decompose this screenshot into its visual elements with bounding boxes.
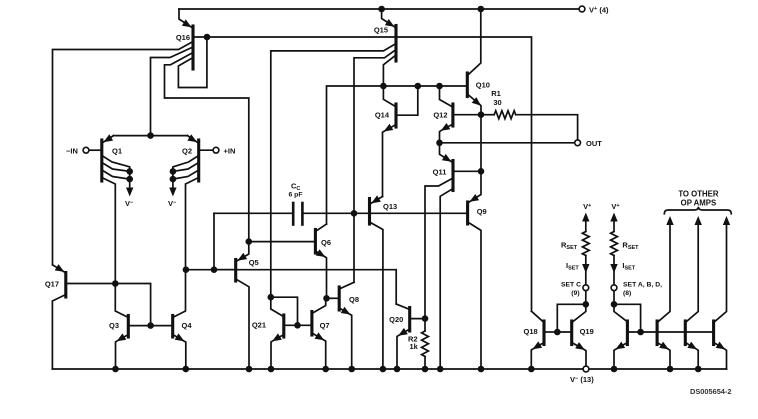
transistor Q13 (PNP)	[370, 195, 383, 366]
junction bus / Q14 base	[415, 83, 422, 90]
wire master collector tie to common bases	[614, 304, 641, 332]
wire Q16 collector 4 diode tie to base	[178, 37, 207, 88]
svg-text:(8): (8)	[623, 290, 631, 297]
svg-text:OP AMPS: OP AMPS	[681, 199, 717, 208]
svg-text:SET C: SET C	[561, 282, 581, 289]
transistor Q9 (PNP)	[468, 171, 481, 366]
transistor slave3 (NPN, to other op amps)	[714, 216, 731, 369]
svg-text:6 pF: 6 pF	[289, 191, 303, 198]
junction Q2 collector stub a	[170, 168, 177, 175]
transistor slave1 (NPN, to other op amps)	[657, 216, 674, 369]
svg-text:30: 30	[493, 98, 501, 107]
transistor Q8 (NPN)	[327, 282, 355, 366]
junction rail / Q20 emitter	[394, 366, 401, 373]
transistor Q4 (NPN)	[151, 272, 186, 367]
transistor slave2 (NPN, to other op amps)	[685, 216, 702, 369]
svg-text:Q4: Q4	[182, 321, 193, 330]
transistor Q14 (NPN diode-connected)	[383, 86, 418, 197]
wire Iset C	[585, 256, 587, 285]
wire Q16 collector 2 to input tail	[151, 47, 194, 133]
junction rail / Q18 emitter	[528, 366, 535, 373]
svg-text:1k: 1k	[410, 342, 419, 351]
transistor Q18 (NPN)	[531, 311, 557, 366]
wire SET C branch	[585, 291, 587, 305]
junction rail / Q7 emitter	[322, 366, 329, 373]
wire Q16 collector 3 to Q5/Q6 node	[165, 53, 249, 240]
svg-text:Q12: Q12	[433, 111, 447, 120]
junction Q6 emitter / Q7 collector / Q8 base	[323, 295, 330, 302]
svg-text:(9): (9)	[571, 290, 579, 297]
svg-text:−IN: −IN	[66, 146, 78, 155]
junction Q15 C1 / Q21 collector	[268, 294, 275, 301]
svg-text:Q21: Q21	[252, 321, 266, 330]
svg-text:Q17: Q17	[45, 279, 59, 288]
svg-text:Q2: Q2	[182, 147, 192, 156]
wire compensation node line to Q9 base	[214, 212, 293, 214]
svg-text:Q16: Q16	[176, 33, 190, 42]
wire SET A,B,D branch	[613, 291, 615, 305]
wire to V+ (ABD)	[613, 219, 615, 232]
wire Q16 collector 1 to Q17 emitter	[53, 42, 194, 265]
junction rail / R2	[422, 366, 429, 373]
wire Iset ABD	[613, 256, 615, 285]
svg-text:Q13: Q13	[383, 202, 397, 211]
wire OUT line	[440, 142, 575, 144]
svg-text:Q19: Q19	[580, 327, 594, 336]
wire second-stage bus / Q6 collector	[327, 86, 466, 224]
transistor Q12 (NPN)	[440, 86, 482, 140]
wire Q2/Q4 collector to bias line	[186, 270, 396, 304]
terminal V- (13)	[583, 366, 589, 372]
transistor Q19 (NPN)	[557, 307, 586, 366]
junction Q17 base / Q1-Q3 collectors	[112, 280, 119, 287]
wire Q15 collector 2 to compensation node	[354, 50, 396, 283]
junction bus / Q12 collector	[436, 83, 443, 90]
junction rail / Q5 collector	[246, 366, 253, 373]
resistor RSET (ABD)	[611, 232, 618, 256]
transistor Q1 (input PNP, multi-collector)	[89, 134, 133, 281]
terminal SET A,B,D (8)	[611, 285, 617, 291]
junction Q16 C3 / Q5 emitter / Q6 base	[246, 238, 253, 245]
junction Q21 base tie	[294, 322, 301, 329]
transistor right mirror master (NPN)	[614, 304, 627, 366]
transistor Q17 (PNP)	[52, 264, 150, 369]
junction tail	[147, 132, 154, 139]
junction rail / Q21 emitter	[268, 366, 275, 373]
junction Q11 base / Q9 emitter line	[478, 168, 485, 175]
junction cap lead / bias line	[211, 266, 218, 273]
wire Q15 collector 3 to second-stage bus	[383, 55, 396, 84]
junction SET A,B,D node	[611, 301, 618, 308]
junction Q15 emitter / V+ rail	[378, 6, 385, 13]
svg-text:Q7: Q7	[320, 321, 330, 330]
junction rail / Q11 C2	[437, 366, 444, 373]
transistor Q11 (PNP dual collector)	[425, 143, 479, 367]
junction Q20 base / Q11 C1 / R2	[422, 315, 429, 322]
transistor Q7 (NPN)	[312, 301, 326, 367]
terminal SET C (9)	[583, 285, 589, 291]
junction bus / Q14 collector	[380, 83, 387, 90]
junction rail / slave2 emitter	[695, 366, 702, 373]
svg-text:Q18: Q18	[524, 327, 538, 336]
wire Q16 base to bias line	[193, 37, 532, 311]
capacitor CC 6 pF	[293, 203, 302, 225]
transistor Q3 (NPN)	[115, 285, 150, 367]
svg-text:V− (13): V− (13)	[570, 375, 594, 384]
svg-text:+IN: +IN	[224, 146, 236, 155]
wire R1 node down to Q11 base	[480, 115, 482, 172]
junction Q2 collector / bias line	[183, 266, 190, 273]
svg-text:OUT: OUT	[586, 139, 602, 148]
junction rail / Q9 collector	[478, 366, 485, 373]
svg-text:Q9: Q9	[477, 207, 487, 216]
junction Q18/Q19 bases	[554, 329, 561, 336]
transistor Q5 (PNP)	[214, 242, 249, 367]
svg-text:Q5: Q5	[249, 258, 259, 267]
junction Q16 base / diode tie	[204, 34, 211, 41]
junction OUT / Q12 emitter / Q11 emitter	[436, 140, 443, 147]
transistor Q20 (NPN)	[396, 304, 425, 367]
resistor RSET (C)	[582, 232, 589, 256]
svg-text:SET A, B, D,: SET A, B, D,	[623, 282, 662, 289]
junction SET C node	[583, 301, 590, 308]
wire V+ supply rail	[179, 8, 579, 10]
junction rail / Q4 emitter	[183, 366, 190, 373]
transistor Q10 (NPN output top)	[467, 12, 481, 113]
svg-text:TO OTHER: TO OTHER	[678, 189, 719, 198]
svg-text:Q15: Q15	[374, 26, 388, 35]
svg-text:Q10: Q10	[476, 80, 490, 89]
brace over op amp arrows	[664, 207, 731, 214]
svg-text:Q6: Q6	[321, 238, 331, 247]
svg-text:Q8: Q8	[349, 295, 359, 304]
transistor Q15 (multi-collector lateral PNP)	[382, 9, 396, 61]
wire to V+ (C)	[585, 219, 587, 232]
transistor Q21 (NPN diode-connected)	[271, 297, 312, 366]
terminal OUT	[575, 140, 581, 146]
wire common base line	[627, 331, 713, 333]
wire Q15 collector 1 to Q21 node	[271, 44, 396, 295]
junction rail / Q13 collector	[380, 366, 387, 373]
resistor R1	[481, 114, 494, 116]
transistor Q6 (NPN)	[249, 224, 327, 296]
junction R1 / Q10 emitter / Q12 base	[478, 111, 485, 118]
transistor Q2 (input PNP, multi-collector)	[169, 134, 213, 267]
resistor R2	[424, 319, 426, 331]
wire V- rail	[52, 368, 583, 370]
svg-text:Q3: Q3	[109, 321, 119, 330]
svg-text:DS005654-2: DS005654-2	[690, 387, 732, 396]
junction Q2 collector stub b	[170, 176, 177, 183]
svg-text:R1: R1	[491, 89, 501, 98]
junction Q10 collector / V+ rail	[478, 6, 485, 13]
junction rail / Q8 emitter	[348, 366, 355, 373]
junction rail / slave1 emitter	[667, 366, 674, 373]
svg-text:V+ (4): V+ (4)	[589, 5, 609, 14]
svg-text:Q14: Q14	[375, 110, 390, 119]
junction Q1 collector stub b	[126, 176, 133, 183]
transistor Q16 (multi-collector lateral PNP)	[179, 9, 193, 69]
svg-text:Q11: Q11	[433, 168, 447, 177]
wire Q19 collector tie to bases	[557, 304, 586, 332]
svg-text:Q1: Q1	[112, 147, 122, 156]
terminal +IN	[213, 147, 219, 153]
junction comp line / Q15 C2 / Q8 collector	[351, 210, 358, 217]
junction Q1 collector stub a	[126, 168, 133, 175]
wire input tail from Q16 C2	[114, 135, 188, 137]
svg-text:Q20: Q20	[389, 315, 403, 324]
junction common bases tie	[637, 329, 644, 336]
junction rail / right mirror emitter	[611, 366, 618, 373]
junction Q3/Q4 bases / Q17 base line	[147, 322, 154, 329]
terminal -IN	[83, 147, 89, 153]
terminal V+ (4)	[579, 6, 585, 12]
junction rail / Q3 emitter	[112, 366, 119, 373]
